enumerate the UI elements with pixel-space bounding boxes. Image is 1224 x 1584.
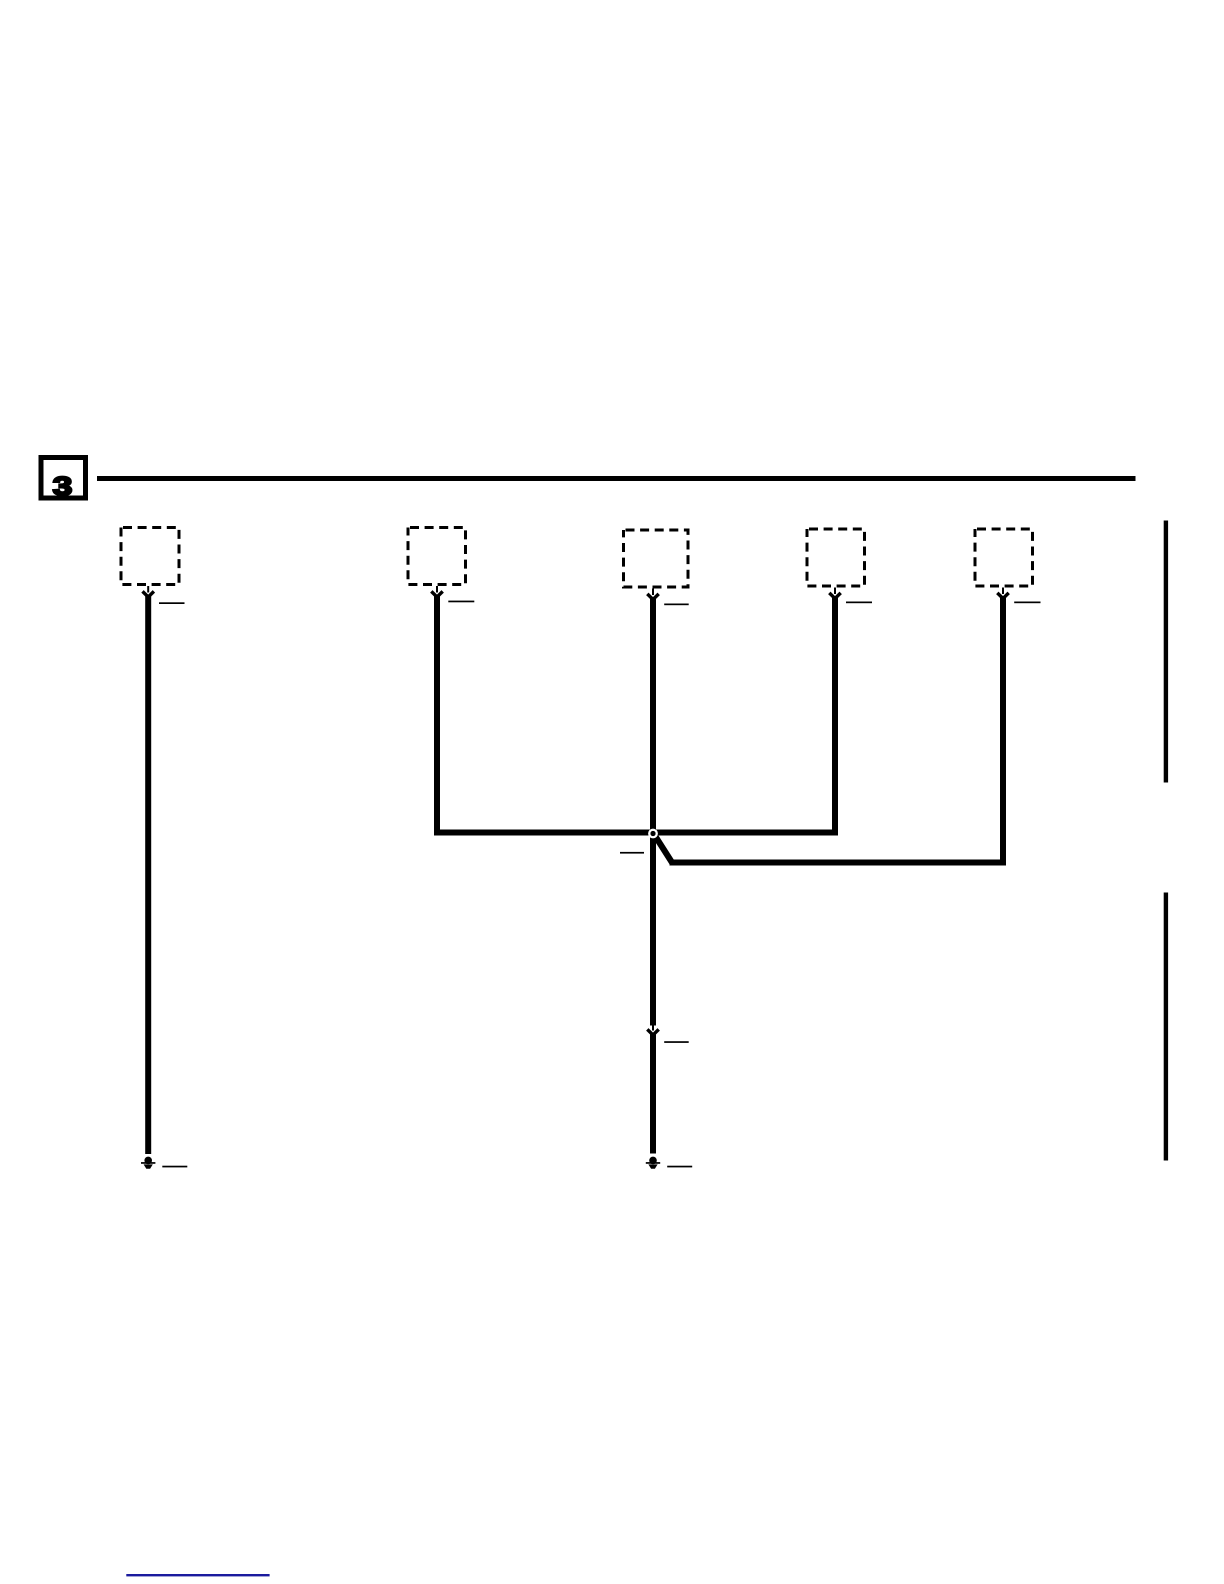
- wire W3 lower from mid arrow down to ground G2: [650, 1034, 656, 1154]
- pin arrow under box 2: [431, 586, 442, 597]
- connector box 2 (dashed): [408, 528, 466, 585]
- wire W2 from box 2 down to bus line: [434, 595, 440, 836]
- wire W3 upper from box 3 down to mid arrow: [650, 598, 656, 1026]
- junction node (open circle): [649, 830, 656, 837]
- label underline at ground G1: [162, 1166, 187, 1168]
- wire W1 from box 1 down to ground G1: [145, 595, 151, 1154]
- label underline at ground G2: [667, 1166, 692, 1168]
- frame number box 3: [41, 458, 86, 501]
- label underline left of junction: [620, 852, 644, 854]
- wire W5 from box 5 down to lower bus line: [1000, 597, 1006, 866]
- ground G2: [646, 1157, 660, 1169]
- header rule: [97, 476, 1136, 481]
- label underline at box 2 pin: [448, 601, 474, 603]
- pin arrow under box 1: [143, 586, 154, 597]
- connector box 5 (dashed): [975, 529, 1033, 586]
- connector box 4 (dashed): [807, 529, 865, 586]
- connector box 3 (dashed): [624, 530, 689, 587]
- right margin bar 2: [1164, 893, 1168, 1161]
- label underline at box 5 pin: [1014, 602, 1040, 604]
- pin arrow under box 3: [647, 589, 658, 600]
- ground G1: [141, 1157, 155, 1169]
- label underline at box 1 pin: [159, 602, 185, 604]
- wire W4 from box 4 down to bus line: [832, 597, 838, 836]
- label underline at box 3 pin: [664, 604, 689, 606]
- svg-text:3: 3: [53, 471, 73, 500]
- label underline at box 4 pin: [846, 602, 872, 604]
- connector box 1 (dashed): [121, 528, 179, 585]
- blue link underline bottom left: [126, 1574, 269, 1576]
- right margin bar 1: [1164, 521, 1168, 783]
- mid-wire arrow on W3: [647, 1026, 658, 1036]
- diagonal wire from junction to bus line 2: [655, 835, 673, 863]
- label underline at mid-wire arrow: [664, 1041, 689, 1043]
- pin arrow under box 5: [997, 588, 1008, 599]
- horizontal bus line 2 (from W5 toward junction): [670, 860, 1007, 866]
- pin arrow under box 4: [829, 588, 840, 599]
- horizontal bus line 1 (joins W2, W3, W4): [434, 830, 838, 836]
